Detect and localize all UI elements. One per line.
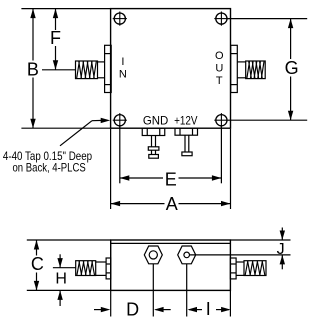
svg-text:I: I <box>206 299 211 319</box>
svg-text:GND: GND <box>143 113 169 127</box>
svg-text:A: A <box>166 194 178 214</box>
svg-text:N: N <box>119 68 127 80</box>
svg-text:C: C <box>31 254 44 274</box>
svg-text:on Back, 4-PLCS: on Back, 4-PLCS <box>13 161 86 175</box>
svg-text:O: O <box>215 50 224 62</box>
svg-text:F: F <box>50 28 61 48</box>
svg-text:B: B <box>27 59 39 79</box>
svg-text:J: J <box>277 241 285 258</box>
svg-text:T: T <box>216 75 223 87</box>
svg-text:+12V: +12V <box>174 113 197 127</box>
svg-text:I: I <box>121 56 124 68</box>
svg-text:G: G <box>285 58 299 78</box>
svg-text:D: D <box>126 299 139 319</box>
svg-text:H: H <box>55 271 67 288</box>
svg-text:E: E <box>165 170 177 190</box>
svg-text:U: U <box>215 63 223 75</box>
